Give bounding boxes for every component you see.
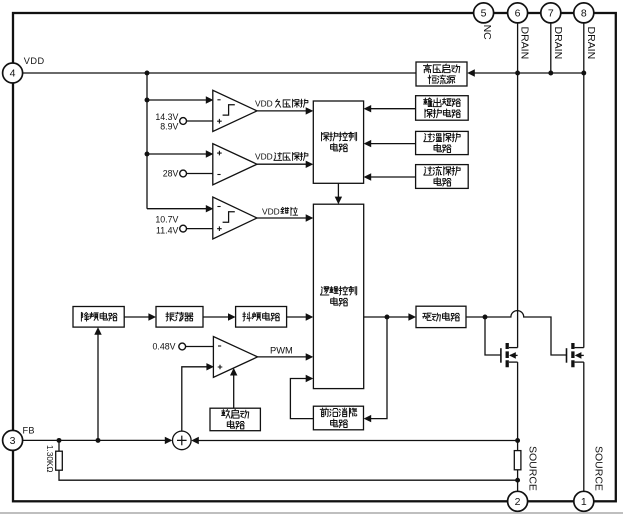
- svg-text:2: 2: [515, 496, 521, 508]
- svg-text:VDD: VDD: [255, 98, 273, 108]
- svg-text:10.7V: 10.7V: [155, 215, 178, 225]
- svg-text:SOURCE: SOURCE: [593, 446, 605, 491]
- svg-text:6: 6: [515, 8, 521, 20]
- svg-text:4: 4: [10, 68, 16, 80]
- svg-text:0.48V: 0.48V: [153, 342, 176, 352]
- svg-text:DRAIN: DRAIN: [519, 27, 531, 60]
- svg-text:DRAIN: DRAIN: [585, 27, 597, 60]
- svg-text:3: 3: [10, 435, 16, 447]
- svg-text:14.3V: 14.3V: [155, 112, 178, 122]
- svg-text:1: 1: [581, 496, 587, 508]
- svg-text:5: 5: [481, 8, 487, 20]
- svg-text:PWM: PWM: [270, 345, 293, 355]
- svg-text:VDD: VDD: [255, 152, 273, 162]
- svg-text:SOURCE: SOURCE: [526, 446, 538, 491]
- svg-text:VDD: VDD: [262, 207, 280, 217]
- svg-text:8: 8: [581, 8, 587, 20]
- svg-text:FB: FB: [23, 425, 35, 435]
- svg-text:NC: NC: [481, 25, 493, 41]
- svg-text:11.4V: 11.4V: [156, 226, 178, 236]
- svg-text:7: 7: [548, 8, 554, 20]
- svg-text:28V: 28V: [163, 169, 179, 179]
- svg-text:1.30KΩ: 1.30KΩ: [45, 445, 54, 473]
- svg-text:VDD: VDD: [24, 56, 45, 66]
- svg-text:8.9V: 8.9V: [160, 122, 178, 132]
- svg-text:DRAIN: DRAIN: [552, 27, 564, 60]
